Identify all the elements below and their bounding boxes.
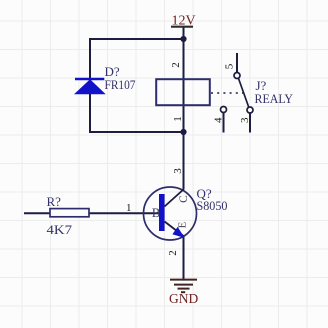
svg-text:2: 2 [167, 250, 179, 256]
svg-text:GND: GND [169, 291, 198, 306]
svg-text:4K7: 4K7 [47, 222, 73, 237]
svg-text:R?: R? [47, 194, 62, 209]
svg-text:REALY: REALY [255, 91, 294, 106]
svg-text:2: 2 [170, 62, 182, 68]
svg-text:E: E [177, 222, 188, 228]
svg-text:S8050: S8050 [197, 198, 228, 213]
svg-text:1: 1 [126, 202, 132, 214]
svg-text:3: 3 [239, 117, 251, 123]
svg-text:3: 3 [172, 168, 184, 174]
svg-text:4: 4 [212, 117, 224, 123]
svg-text:1: 1 [172, 116, 184, 122]
svg-text:C: C [178, 195, 190, 203]
svg-text:5: 5 [224, 63, 236, 69]
svg-text:FR107: FR107 [105, 77, 136, 92]
svg-text:12V: 12V [172, 14, 196, 29]
svg-text:B: B [152, 206, 160, 220]
